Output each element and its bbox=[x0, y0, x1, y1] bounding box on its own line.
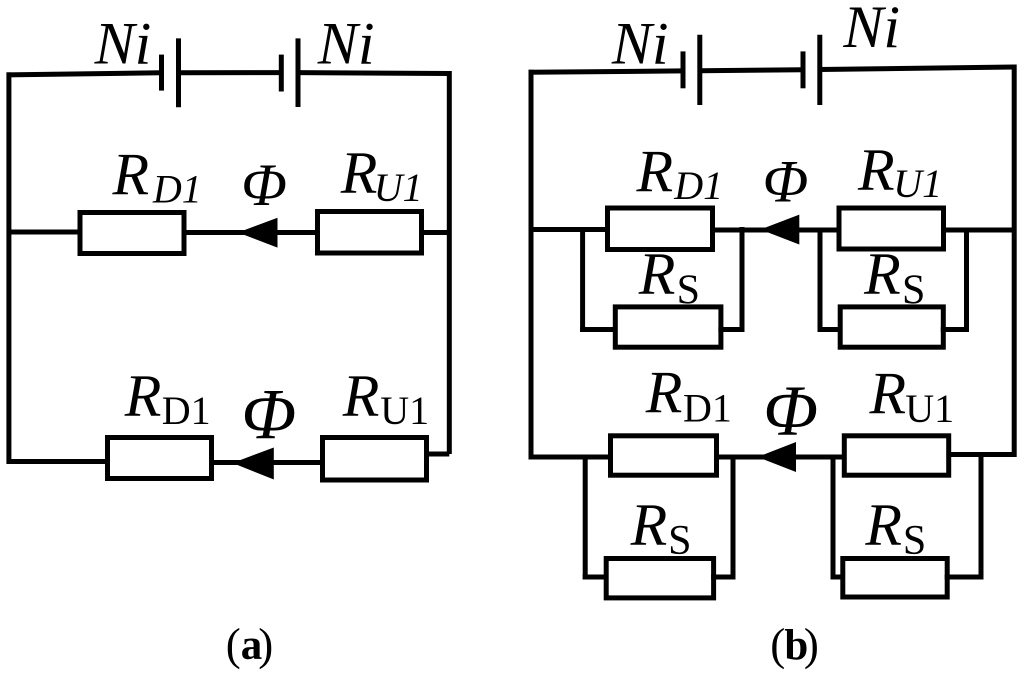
caption (a) bbox=[226, 620, 273, 670]
wire: (b) lower-right RS connector left bbox=[831, 575, 846, 580]
mmf source Ni (a) left battery: long plate bbox=[176, 38, 181, 107]
svg-text:R: R bbox=[863, 241, 901, 307]
svg-text:U1: U1 bbox=[893, 161, 942, 206]
svg-text:D1: D1 bbox=[683, 385, 732, 430]
wire: (b) upper-right RS connector left bbox=[818, 327, 843, 332]
wire: (b) top wire right segment bbox=[820, 67, 1014, 70]
label RS (b) upper-left bbox=[638, 241, 700, 314]
flux arrow phi (b) upper branch bbox=[761, 215, 800, 245]
svg-text:S: S bbox=[668, 518, 691, 564]
wire: (a) middle row center segment bbox=[182, 230, 319, 235]
wire: (a) middle row left segment bbox=[7, 230, 83, 235]
svg-text:U1: U1 bbox=[380, 388, 429, 433]
svg-text:R: R bbox=[124, 363, 162, 429]
resistor RD1 (a) lower branch box bbox=[108, 438, 212, 479]
label RU1 (a) lower bbox=[342, 363, 429, 433]
junction stub: (b) second row left of RU1 bbox=[831, 455, 836, 580]
wire: (a) left vertical branch bbox=[6, 72, 11, 464]
wire: (b) first row center segment bbox=[710, 228, 841, 233]
svg-text:R: R bbox=[342, 363, 380, 429]
junction stub: (b) first row right of RD1 bbox=[740, 227, 745, 332]
label Ni (b) left bbox=[611, 11, 669, 77]
svg-text:R: R bbox=[630, 492, 668, 558]
mmf source Ni (a) right battery: long plate bbox=[296, 38, 301, 107]
label Ni (b) right bbox=[842, 0, 900, 60]
label RU1 (a) upper bbox=[340, 140, 423, 210]
svg-text:(: ( bbox=[770, 620, 785, 670]
junction stub: (b) first row right of RU1 bbox=[964, 228, 969, 333]
wire: (b) right vertical branch bbox=[1012, 65, 1017, 458]
label Ni (a) right bbox=[317, 10, 375, 76]
wire: (b) upper-left RS connector right bbox=[718, 327, 744, 332]
resistor RU1 (a) upper branch box bbox=[318, 212, 422, 254]
svg-text:R: R bbox=[645, 360, 683, 426]
junction stub: (b) first row left of RD1 bbox=[580, 227, 585, 332]
wire: (b) left vertical branch bbox=[529, 70, 534, 460]
flux arrow phi (a) upper branch bbox=[238, 218, 278, 248]
mmf source Ni (a) right battery: short plate bbox=[279, 55, 284, 92]
caption (b) bbox=[770, 620, 819, 670]
label phi (b) lower bbox=[763, 371, 818, 451]
leakage resistor RS (b) lower-right box bbox=[843, 559, 947, 598]
junction stub: (b) second row right of RD1 bbox=[731, 455, 736, 580]
junction stub: (b) second row left of RD1 bbox=[583, 455, 588, 580]
label RS (b) lower-right bbox=[864, 492, 926, 564]
flux arrow phi (b) lower branch bbox=[758, 442, 797, 472]
mmf source Ni (b) right battery: short plate bbox=[801, 51, 806, 88]
svg-text:S: S bbox=[903, 518, 926, 564]
label RS (b) lower-left bbox=[630, 492, 692, 564]
wire: (b) first row right segment bbox=[941, 228, 1014, 233]
svg-text:R: R bbox=[638, 241, 676, 307]
svg-text:): ) bbox=[258, 620, 273, 670]
leakage resistor RS (b) upper-left box bbox=[615, 307, 721, 347]
svg-text:U1: U1 bbox=[905, 386, 954, 431]
label phi (b) upper bbox=[763, 149, 809, 215]
svg-text:Φ: Φ bbox=[241, 152, 287, 218]
resistor RU1 (b) lower branch box bbox=[844, 436, 948, 475]
label RU1 (b) lower bbox=[869, 360, 955, 431]
wire: (a) middle row right segment bbox=[419, 230, 449, 235]
mmf source Ni (a) left battery: short plate bbox=[159, 55, 164, 91]
svg-text:S: S bbox=[677, 267, 700, 313]
wire: (a) bottom row center segment bbox=[209, 460, 325, 465]
resistor RU1 (a) lower branch box bbox=[323, 438, 427, 481]
leakage resistor RS (b) lower-left box bbox=[606, 559, 713, 598]
label RU1 (b) upper bbox=[857, 137, 942, 206]
wire: (a) bottom row left segment bbox=[7, 459, 111, 464]
svg-text:S: S bbox=[902, 267, 925, 313]
wire: (a) top wire left segment bbox=[7, 73, 162, 75]
svg-text:R: R bbox=[340, 140, 378, 206]
wire: (b) first row left segment bbox=[531, 227, 610, 232]
wire: (b) lower-right RS connector right bbox=[945, 575, 984, 580]
label Ni (a) left bbox=[94, 10, 152, 76]
resistor RD1 (b) lower branch box bbox=[611, 436, 717, 475]
svg-text:Φ: Φ bbox=[763, 149, 809, 215]
resistor RD1 (b) upper branch box bbox=[608, 208, 713, 250]
label RD1 (b) upper bbox=[636, 139, 724, 208]
svg-text:D1: D1 bbox=[162, 388, 211, 433]
svg-text:R: R bbox=[636, 139, 674, 205]
mmf source Ni (b) left battery: short plate bbox=[681, 51, 686, 88]
mmf source Ni (b) right battery: long plate bbox=[817, 35, 822, 105]
svg-text:R: R bbox=[864, 492, 902, 558]
wire: (b) upper-left RS connector left bbox=[580, 327, 618, 332]
wire: (a) top wire between batteries bbox=[179, 70, 282, 75]
wire: (b) top wire between batteries bbox=[700, 70, 803, 71]
svg-text:(: ( bbox=[226, 620, 241, 670]
wire: (b) lower-left RS connector left bbox=[583, 575, 609, 580]
label phi (a) upper bbox=[241, 152, 287, 218]
mmf source Ni (b) left battery: long plate bbox=[697, 35, 702, 105]
resistor RD1 (a) upper branch box bbox=[80, 213, 184, 254]
wire: (a) right vertical branch bbox=[447, 71, 452, 454]
junction stub: (b) first row left of RU1 bbox=[818, 228, 823, 333]
svg-text:R: R bbox=[857, 137, 895, 203]
svg-text:): ) bbox=[804, 620, 819, 670]
label RD1 (a) lower bbox=[124, 363, 211, 433]
svg-text:Ni: Ni bbox=[842, 0, 900, 60]
wire: (b) second row center segment bbox=[714, 455, 847, 460]
label RD1 (b) lower bbox=[645, 360, 732, 431]
label phi (a) lower bbox=[241, 374, 296, 454]
svg-text:Φ: Φ bbox=[763, 371, 818, 451]
junction stub: (b) second row right of RU1 bbox=[979, 452, 984, 580]
svg-text:D1: D1 bbox=[152, 167, 202, 212]
svg-text:Ni: Ni bbox=[611, 11, 669, 77]
wire: (b) second row left segment bbox=[531, 455, 613, 460]
wire: (a) top wire right segment bbox=[298, 70, 449, 76]
resistor RU1 (b) upper branch box bbox=[839, 208, 944, 249]
svg-text:Ni: Ni bbox=[317, 10, 375, 76]
flux arrow phi (a) lower branch bbox=[233, 448, 274, 480]
svg-text:Ni: Ni bbox=[94, 10, 152, 76]
wire: (b) second row right segment bbox=[946, 452, 1014, 457]
svg-text:Φ: Φ bbox=[241, 374, 296, 454]
svg-text:U1: U1 bbox=[374, 165, 423, 210]
svg-text:D1: D1 bbox=[673, 163, 723, 208]
svg-text:R: R bbox=[112, 141, 150, 207]
wire: (b) lower-left RS connector right bbox=[711, 575, 735, 580]
wire: (b) upper-right RS connector right bbox=[941, 327, 969, 332]
wire: (a) bottom row right connector bbox=[424, 452, 449, 457]
wire: (b) top wire left segment bbox=[529, 71, 684, 72]
label RD1 (a) upper: R bbox=[112, 141, 202, 211]
svg-text:R: R bbox=[869, 360, 907, 426]
label RS (b) upper-right bbox=[863, 241, 925, 314]
leakage resistor RS (b) upper-right box bbox=[840, 307, 943, 347]
